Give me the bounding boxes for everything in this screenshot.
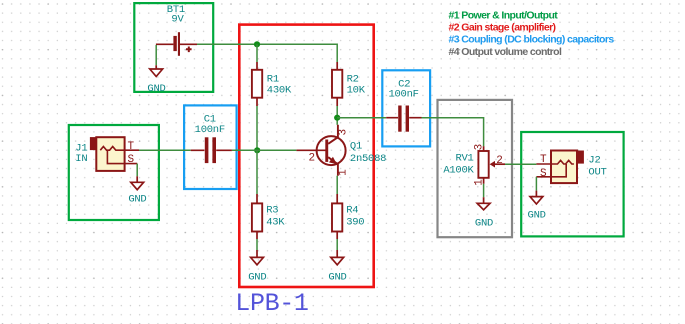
junction collector node	[334, 115, 340, 121]
annotation box J1 (input, green)	[69, 125, 159, 220]
resistor R2	[332, 62, 342, 106]
svg-text:43K: 43K	[266, 217, 285, 229]
svg-text:GND: GND	[248, 271, 266, 283]
svg-text:2n5088: 2n5088	[350, 153, 386, 165]
resistor R4	[332, 194, 342, 239]
annotation box J2 (output, green)	[521, 132, 623, 236]
svg-text:10K: 10K	[347, 85, 366, 97]
ground under J2	[530, 191, 543, 204]
annotation box RV1 (gray)	[438, 100, 513, 237]
svg-text:#1 Power & Input/Output: #1 Power & Input/Output	[449, 10, 559, 22]
svg-text:#3 Coupling (DC blocking) capa: #3 Coupling (DC blocking) capacitors	[449, 34, 615, 46]
jack J2	[536, 151, 584, 184]
svg-text:3: 3	[337, 129, 349, 136]
svg-text:100nF: 100nF	[388, 89, 418, 101]
svg-text:S: S	[540, 168, 547, 180]
ground under J1	[131, 176, 144, 189]
svg-text:R4: R4	[346, 205, 358, 217]
annotation box C1 (blue)	[184, 105, 237, 189]
potentiometer RV1	[478, 146, 505, 184]
svg-text:GND: GND	[128, 193, 146, 205]
battery BT1	[156, 32, 197, 56]
svg-text:R2: R2	[347, 73, 359, 85]
svg-text:T: T	[128, 141, 135, 153]
svg-text:LPB-1: LPB-1	[235, 289, 308, 318]
ground under R3	[251, 250, 264, 265]
svg-text:S: S	[128, 154, 135, 166]
transistor Q1	[296, 125, 345, 176]
wire battery left down to ground	[155, 45, 157, 65]
wire R3 bottom to ground	[256, 239, 258, 250]
wire base row right (C1 to Q1)	[232, 149, 297, 151]
wire collector row to C2	[337, 117, 386, 119]
annotation box C2 (blue)	[382, 70, 430, 146]
svg-text:T: T	[540, 154, 547, 166]
ground under RV1	[477, 197, 490, 210]
capacitor C1	[191, 137, 232, 163]
svg-text:2: 2	[496, 155, 503, 167]
wire R4 bottom to ground	[336, 239, 338, 250]
svg-text:#2 Gain stage (amplifier): #2 Gain stage (amplifier)	[449, 22, 556, 34]
svg-text:390: 390	[346, 217, 364, 229]
svg-text:R1: R1	[267, 73, 279, 85]
wire R3 top from base junction	[256, 150, 258, 194]
svg-text:J2: J2	[588, 155, 600, 167]
svg-text:100nF: 100nF	[195, 124, 225, 136]
wire R2 bottom to collector junction	[336, 106, 338, 125]
resistor R3	[252, 194, 262, 239]
wire R1 top stub	[256, 44, 258, 62]
resistor R1	[252, 62, 262, 106]
svg-text:RV1: RV1	[455, 152, 473, 164]
wire RV1 bottom to ground	[483, 184, 485, 197]
wire C2 to RV1 pin3	[422, 118, 484, 147]
svg-text:R3: R3	[266, 205, 278, 217]
jack J1	[90, 137, 139, 171]
svg-text:GND: GND	[147, 83, 165, 95]
svg-text:430K: 430K	[267, 85, 292, 97]
wire base row left (J1 to C1)	[139, 149, 191, 151]
svg-text:GND: GND	[528, 209, 546, 221]
wire RV1 wiper to J2	[505, 163, 536, 165]
capacitor C2	[386, 106, 421, 132]
junction base node	[254, 147, 260, 153]
wire J1 sleeve to ground	[136, 164, 138, 177]
wire R1 bottom to base row	[256, 106, 258, 150]
svg-text:2: 2	[309, 153, 316, 165]
svg-text:9V: 9V	[171, 14, 184, 26]
annotation box gain stage (red)	[239, 25, 373, 287]
wire Q1 emitter to R4	[336, 176, 338, 194]
svg-text:IN: IN	[75, 153, 87, 165]
svg-text:GND: GND	[475, 217, 493, 229]
wire top rail battery to R2 column	[197, 44, 337, 62]
svg-text:GND: GND	[328, 271, 346, 283]
junction top rail R1 column	[254, 41, 260, 47]
svg-text:Q1: Q1	[350, 140, 362, 152]
svg-text:#4 Output volume control: #4 Output volume control	[449, 46, 562, 58]
svg-text:3: 3	[474, 144, 486, 151]
svg-text:OUT: OUT	[588, 167, 606, 179]
ground under battery	[150, 65, 163, 76]
ground under R4	[331, 250, 344, 265]
wire J2 sleeve to ground	[535, 177, 537, 191]
annotation box BT1 (power, green)	[134, 3, 213, 92]
svg-text:A100K: A100K	[443, 164, 474, 176]
svg-text:1: 1	[338, 169, 350, 176]
